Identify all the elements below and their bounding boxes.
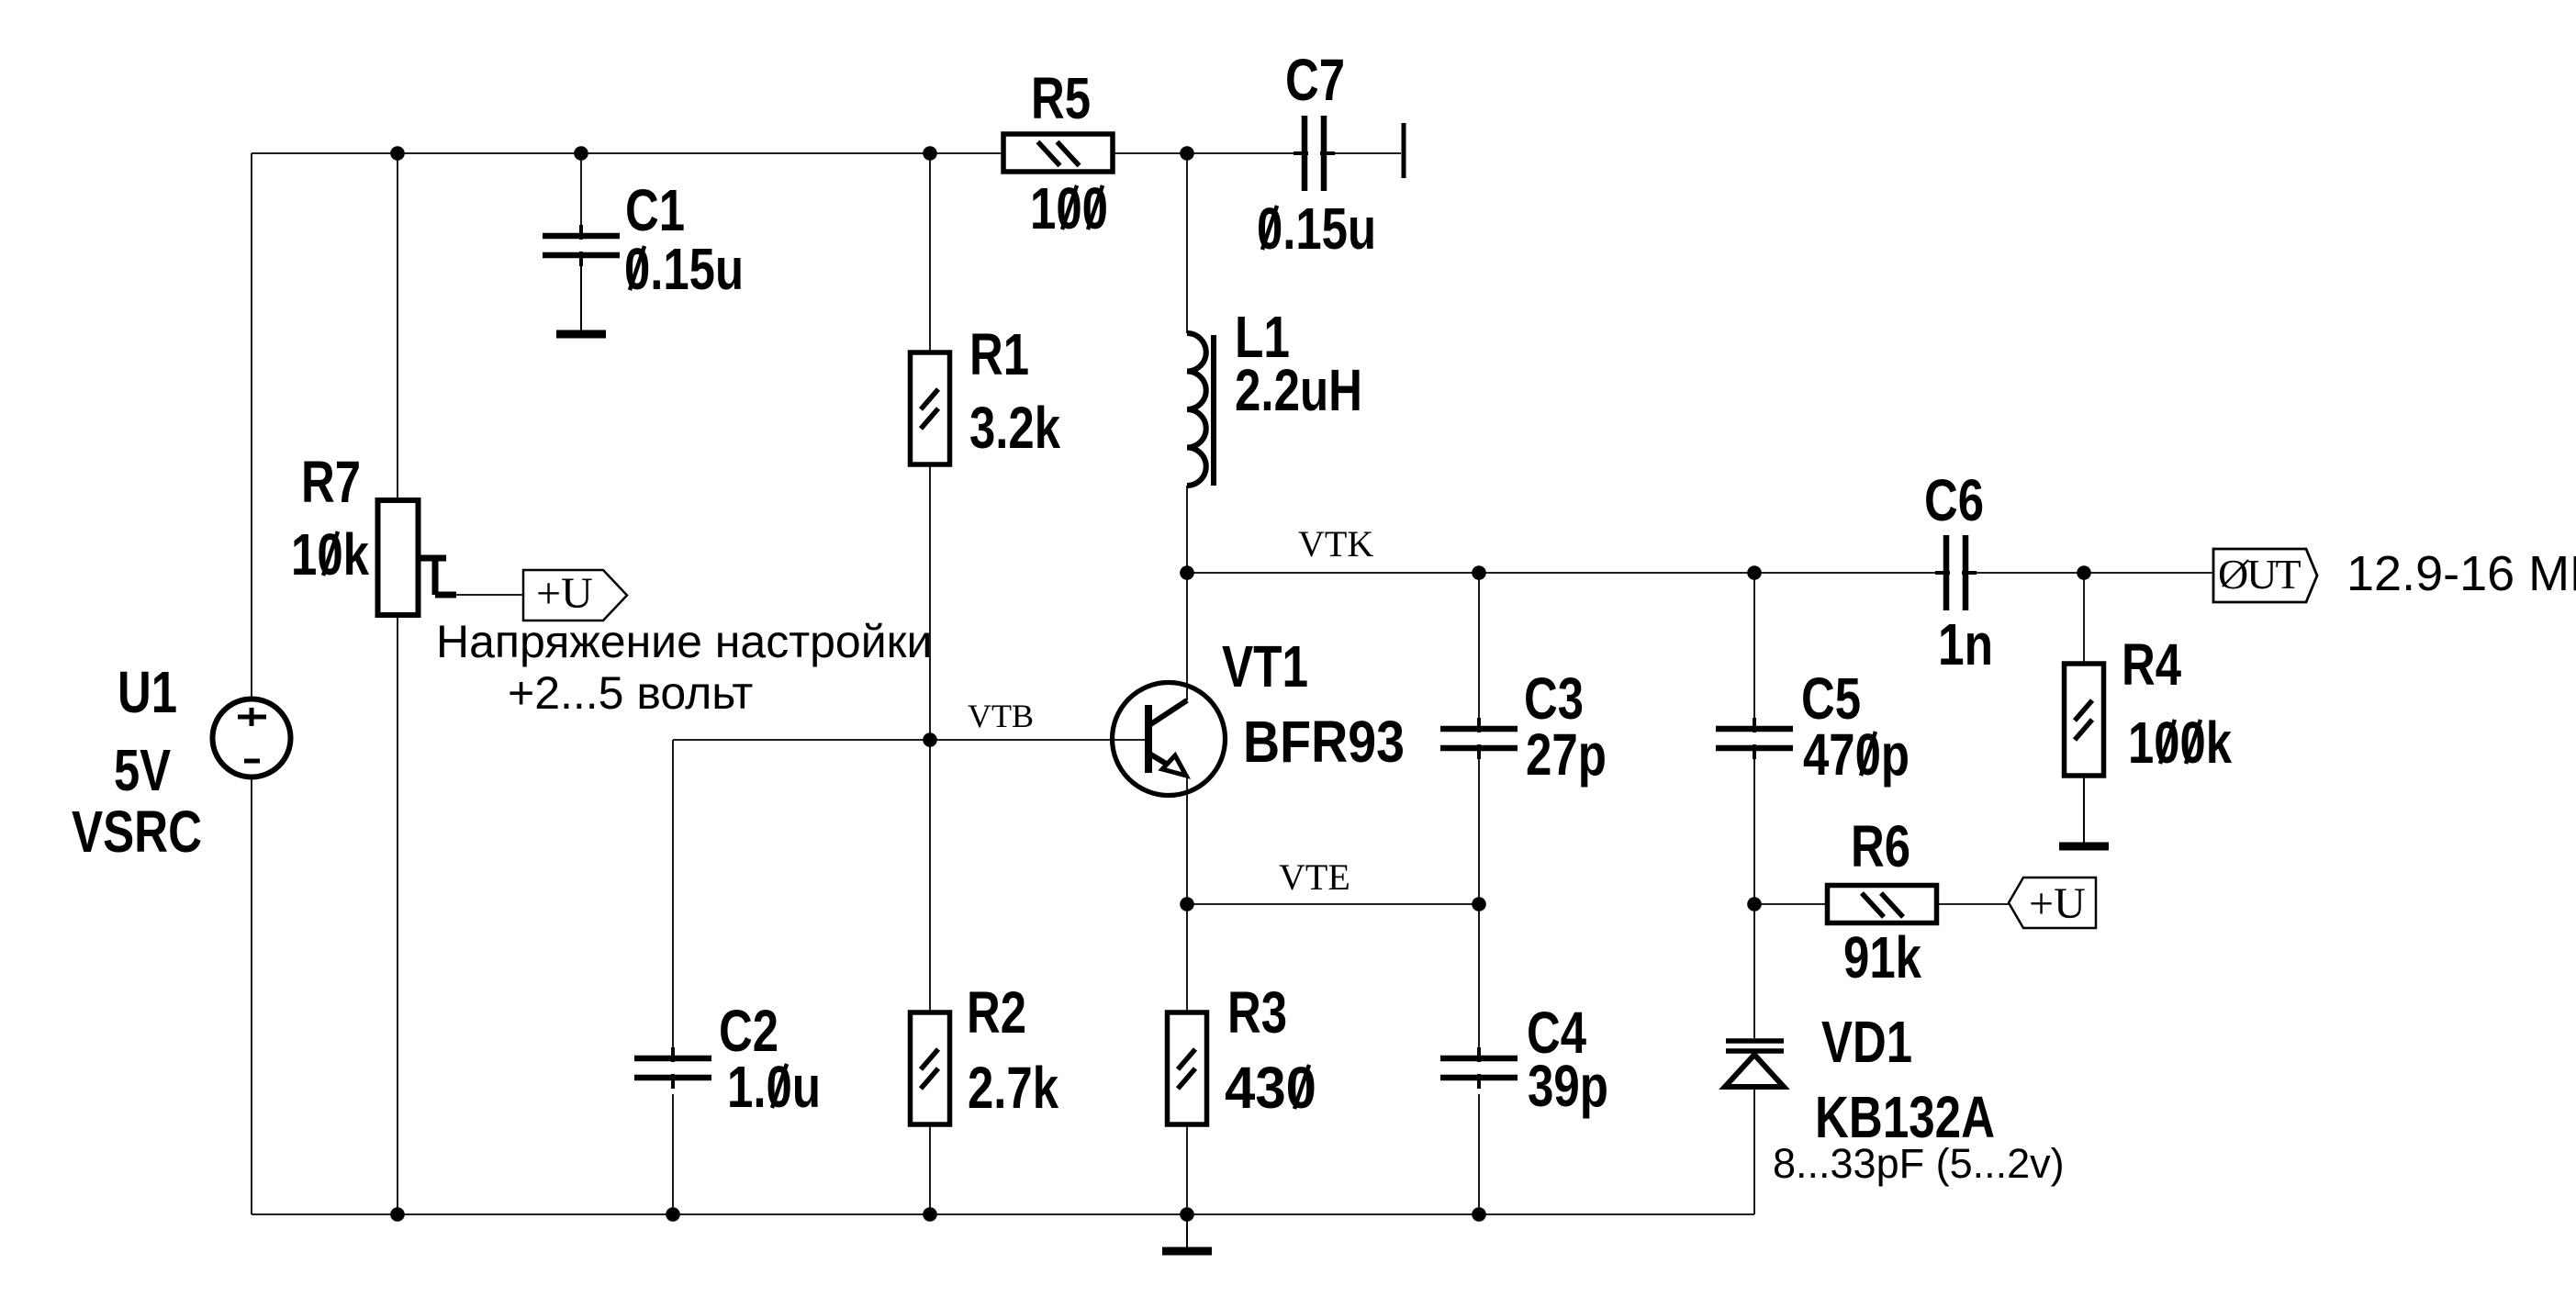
resistor R3 (1168, 1012, 1207, 1124)
svg-text:+U: +U (536, 569, 593, 618)
svg-text:VTB: VTB (968, 698, 1034, 734)
svg-text:470p: 470p (1803, 721, 1910, 788)
wire R1 to R2 through VTB node (929, 464, 931, 1012)
ground under C1 (556, 254, 606, 334)
port +U (right, at R6) (2009, 878, 2096, 928)
svg-text:27p: 27p (1526, 721, 1607, 788)
ground under R3 (1162, 1214, 1212, 1251)
capacitor C4 (1440, 1047, 1518, 1089)
node bottom rail / R3 (1180, 1207, 1194, 1222)
svg-text:39p: 39p (1528, 1053, 1608, 1119)
wire C6 to OUT port (1966, 572, 2213, 574)
node junction top rail / R1 (923, 146, 937, 161)
svg-text:R1: R1 (969, 321, 1029, 387)
wire left rail lower (251, 777, 252, 1214)
wire top rail left of R5 (252, 152, 1003, 154)
wire R3 top lead (1186, 904, 1188, 1012)
svg-text:VTE: VTE (1279, 856, 1350, 898)
node VTK junction C3 (1472, 565, 1486, 580)
wire left rail upper (251, 153, 252, 699)
svg-text:R3: R3 (1227, 979, 1287, 1045)
wire C1 top lead (580, 153, 582, 237)
capacitor C5 (1716, 718, 1793, 759)
resistor R6 (1828, 886, 1937, 923)
svg-text:R6: R6 (1851, 813, 1910, 879)
wire C3 top lead (1478, 573, 1480, 729)
wire C3 bottom lead (1478, 749, 1480, 904)
resistor R1 (911, 352, 950, 464)
wire R6 to +U port (1937, 903, 2010, 905)
transistor VT1 (1113, 683, 1226, 796)
wire R4 bottom lead (2083, 776, 2085, 843)
potentiometer R7 (378, 500, 457, 615)
inductor L1 (1187, 333, 1214, 486)
svg-text:2.2uH: 2.2uH (1235, 357, 1362, 423)
wire top rail R5 to C7 (1113, 152, 1303, 154)
wire VT1 emitter lead (1186, 777, 1188, 904)
resistor R4 (2065, 664, 2104, 776)
wire net VTE horizontal (1187, 903, 1479, 905)
wire net VTB horizontal (673, 739, 1148, 741)
open pin terminal after C7 (1402, 123, 1406, 178)
svg-text:2.7k: 2.7k (968, 1055, 1058, 1121)
node VTE junction C3/C4 (1472, 897, 1486, 911)
capacitor C6 (1935, 535, 1977, 610)
node VTE junction emitter (1180, 897, 1194, 911)
node VTK junction collector (1180, 565, 1194, 580)
wire C7 to open pin (1327, 152, 1401, 154)
wire bottom rail (252, 1213, 1754, 1215)
ground under R4 (2059, 778, 2109, 846)
wire R3 bottom lead (1186, 1124, 1188, 1214)
voltage source U1 (213, 699, 291, 777)
svg-text:R5: R5 (1031, 65, 1091, 131)
svg-text:U1: U1 (118, 659, 177, 725)
svg-text:+2...5 вольт: +2...5 вольт (508, 667, 753, 719)
node junction C5/VD1/R6 (1747, 897, 1762, 911)
node VTK junction C5 (1747, 565, 1762, 580)
wire C4 top lead (1478, 904, 1480, 1060)
capacitor C2 (634, 1047, 711, 1089)
wire L1 top lead (1186, 153, 1188, 333)
svg-text:100k: 100k (2128, 710, 2232, 776)
svg-text:R7: R7 (301, 449, 361, 515)
svg-text:VTK: VTK (1298, 523, 1373, 565)
svg-text:0.15u: 0.15u (1257, 196, 1376, 262)
wire R1 top lead (929, 153, 931, 352)
svg-text:R4: R4 (2122, 632, 2181, 698)
wire VD1 cathode lead (1753, 904, 1755, 1038)
node bottom rail / R7 (390, 1207, 405, 1222)
svg-text:VSRC: VSRC (72, 799, 202, 865)
node VTB junction R1/R2 (923, 732, 937, 747)
capacitor C1 (543, 225, 620, 266)
svg-text:5V: 5V (114, 737, 171, 803)
wire net VTK horizontal (1187, 572, 1944, 574)
node bottom rail / C2 (666, 1207, 680, 1222)
wire C5 top lead (1753, 573, 1755, 729)
wire R6 left lead (1754, 903, 1827, 905)
capacitor C7 (1294, 116, 1335, 191)
svg-text:C6: C6 (1924, 467, 1984, 533)
svg-text:Напряжение настройки: Напряжение настройки (436, 616, 932, 667)
node junction top rail / C1 (574, 146, 588, 161)
capacitor C3 (1440, 718, 1518, 759)
wire VT1 collector lead (1186, 573, 1188, 700)
svg-text:1n: 1n (1938, 611, 1993, 677)
svg-text:1.0u: 1.0u (727, 1054, 821, 1120)
port OUT (2213, 549, 2317, 602)
svg-text:C1: C1 (625, 177, 685, 243)
svg-text:OUT: OUT (2218, 551, 2301, 598)
resistor R2 (911, 1012, 950, 1124)
wire R7 top lead (397, 153, 398, 500)
port +U (tuning input) (523, 569, 627, 621)
svg-text:VT1: VT1 (1222, 633, 1308, 699)
svg-text:0.15u: 0.15u (624, 236, 744, 302)
node bottom rail / C4 (1472, 1207, 1486, 1222)
svg-text:VD1: VD1 (1821, 1009, 1912, 1075)
wire C2 bottom lead (672, 1094, 674, 1214)
svg-text:91k: 91k (1843, 924, 1921, 990)
svg-text:R2: R2 (967, 979, 1026, 1045)
wire R7 bottom lead (397, 615, 398, 1214)
wire C4 bottom lead (1478, 1094, 1480, 1214)
wire R2 bottom lead (929, 1124, 931, 1214)
wire VTB corner down to C2 (672, 740, 674, 1060)
wire R7 wiper to +U port (456, 594, 524, 596)
node junction top rail / R7 (390, 146, 405, 161)
node OUT junction R4 (2077, 565, 2091, 580)
node bottom rail / R2 (923, 1207, 937, 1222)
svg-text:BFR93: BFR93 (1243, 709, 1405, 775)
svg-text:+U: +U (2029, 879, 2086, 928)
svg-text:12.9-16 MHz: 12.9-16 MHz (2346, 546, 2576, 601)
wire C5 bottom lead (1753, 749, 1755, 904)
wire R4 top lead (2083, 573, 2085, 664)
svg-text:C7: C7 (1285, 47, 1345, 113)
svg-text:8...33pF (5...2v): 8...33pF (5...2v) (1773, 1140, 2065, 1187)
node junction top rail / L1 (1180, 146, 1194, 161)
wire VD1 anode lead (1753, 1087, 1755, 1214)
varicap diode VD1 (1725, 1041, 1784, 1087)
resistor R5 (1003, 134, 1113, 172)
wire L1 bottom lead (1186, 486, 1188, 573)
svg-text:3.2k: 3.2k (969, 395, 1060, 461)
